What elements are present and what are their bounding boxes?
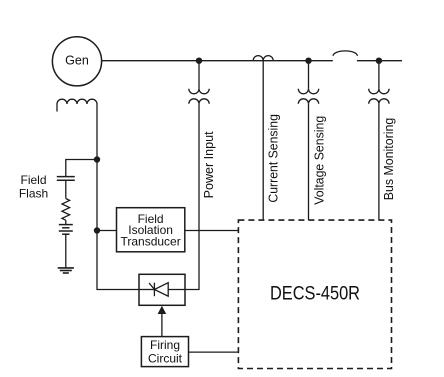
field isolation transducer U2 bbox=[117, 208, 185, 252]
generator field winding L1 bbox=[57, 99, 97, 111]
wire: bus monitoring drop from bus bbox=[378, 61, 380, 89]
wire: transducer output to DECS-450R bbox=[185, 230, 239, 232]
resistor R1 (field flash) bbox=[62, 199, 70, 221]
svg-text:Power Input: Power Input bbox=[202, 131, 216, 198]
capacitor C1 (field flash) bbox=[57, 177, 75, 181]
wire: bus right segment bbox=[357, 60, 402, 62]
svg-text:Field: Field bbox=[20, 173, 46, 187]
wire: voltage sensing drop from bus bbox=[308, 61, 310, 89]
wire: power input secondary down to SCR bridge bbox=[185, 104, 199, 290]
breaker (arc) on bus bbox=[333, 51, 357, 56]
transformer T3 (bus monitoring) secondary winding bbox=[369, 99, 389, 104]
node: field isolation transducer tap bbox=[94, 227, 100, 233]
wire: resistor to battery bbox=[65, 220, 67, 224]
transformer T1 (power input) primary winding bbox=[189, 89, 209, 94]
wire: field winding to field flash junction bbox=[96, 104, 98, 160]
current transformer CT1 (current sensing) bumps on bus bbox=[253, 56, 273, 61]
node: power input tap junction bbox=[196, 58, 202, 64]
gate drive arrow from firing circuit to SCR bbox=[158, 306, 167, 337]
svg-text:Transducer: Transducer bbox=[120, 235, 180, 249]
svg-text:Current Sensing: Current Sensing bbox=[267, 114, 281, 203]
ground bbox=[58, 268, 74, 273]
wire: voltage sensing to DECS-450R bbox=[308, 104, 310, 220]
svg-text:Flash: Flash bbox=[19, 186, 48, 200]
node: voltage sensing tap junction bbox=[305, 58, 311, 64]
svg-text:Circuit: Circuit bbox=[148, 352, 183, 366]
firing circuit box bbox=[141, 337, 188, 367]
label: Field Flash bbox=[19, 173, 48, 200]
wire: power input drop from bus bbox=[198, 61, 200, 89]
wire: field flash branch bbox=[66, 160, 97, 177]
wire: field line down to rectifier bbox=[96, 160, 98, 231]
transformer T1 (power input) secondary winding bbox=[189, 99, 209, 104]
wire: battery to ground bbox=[65, 234, 67, 268]
transformer T2 (voltage sensing) primary winding bbox=[298, 89, 318, 94]
svg-text:Gen: Gen bbox=[65, 54, 89, 68]
wire: firing circuit to DECS-450R bbox=[189, 351, 239, 353]
wire: capacitor to resistor bbox=[65, 180, 67, 198]
thyristor SCR1 bbox=[139, 283, 185, 297]
battery B1 (field flash source) bbox=[59, 225, 73, 235]
generator G1 (Gen) bbox=[52, 37, 101, 86]
SCR bridge box bbox=[139, 274, 185, 305]
transformer T3 (bus monitoring) primary winding bbox=[369, 89, 389, 94]
wire: field line to SCR bridge bbox=[97, 231, 139, 290]
wire: tap to field isolation transducer bbox=[97, 230, 117, 232]
wire: bus monitoring to DECS-450R bbox=[378, 104, 380, 220]
node: field flash junction bbox=[94, 156, 100, 162]
transformer T2 (voltage sensing) secondary winding bbox=[298, 99, 318, 104]
wire: current sensing to DECS-450R bbox=[262, 61, 264, 220]
wire: generator output bus, left segment bbox=[102, 60, 333, 62]
svg-text:DECS-450R: DECS-450R bbox=[270, 283, 360, 305]
node: bus monitoring tap junction bbox=[376, 58, 382, 64]
svg-text:Voltage Sensing: Voltage Sensing bbox=[313, 116, 327, 205]
svg-text:Firing: Firing bbox=[150, 338, 180, 352]
svg-text:Bus Monitoring: Bus Monitoring bbox=[382, 118, 396, 201]
DECS-450R controller (dashed enclosure) bbox=[238, 220, 391, 368]
